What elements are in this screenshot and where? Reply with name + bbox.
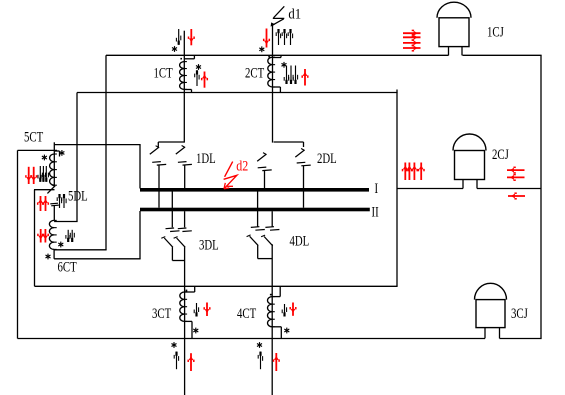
svg-text:1CJ: 1CJ bbox=[487, 23, 504, 40]
svg-text:d2: d2 bbox=[236, 157, 248, 174]
svg-text:2DL: 2DL bbox=[317, 149, 337, 166]
svg-text:2CJ: 2CJ bbox=[492, 145, 509, 162]
svg-text:d1: d1 bbox=[288, 7, 301, 23]
svg-text:5CT: 5CT bbox=[24, 128, 43, 145]
svg-text:I: I bbox=[375, 179, 379, 196]
svg-text:1DL: 1DL bbox=[196, 149, 216, 166]
svg-text:3CJ: 3CJ bbox=[511, 304, 528, 321]
svg-text:1CT: 1CT bbox=[154, 64, 173, 81]
svg-text:5DL: 5DL bbox=[68, 187, 88, 204]
svg-text:3DL: 3DL bbox=[199, 236, 219, 253]
svg-text:4CT: 4CT bbox=[237, 304, 256, 321]
svg-text:2CT: 2CT bbox=[245, 64, 264, 81]
svg-text:II: II bbox=[372, 203, 379, 220]
svg-text:6CT: 6CT bbox=[58, 258, 77, 275]
svg-text:3CT: 3CT bbox=[152, 304, 171, 321]
svg-text:4DL: 4DL bbox=[290, 232, 310, 249]
